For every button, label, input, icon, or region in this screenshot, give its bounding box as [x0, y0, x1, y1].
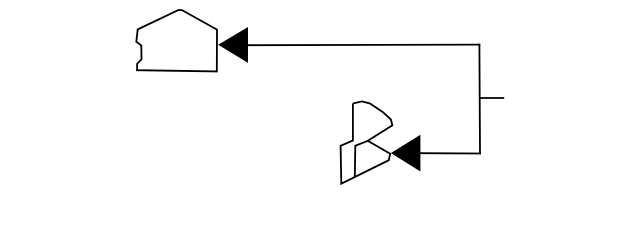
wire: top horizontal from house arrowhead to right corner	[248, 44, 480, 47]
wire: bottom horizontal from corner to B arrowhead	[420, 152, 480, 154]
arrowhead into B shape	[392, 136, 420, 171]
house-shaped block	[136, 10, 217, 72]
B-shape upper loop and inner vertical	[353, 101, 393, 177]
arrowhead into house	[219, 28, 247, 62]
wire: stub branching right off vertical wire	[480, 97, 505, 99]
wire: vertical drop on right side	[478, 45, 481, 154]
B-shape spine, left edge, bottom and lower loop	[341, 104, 391, 184]
